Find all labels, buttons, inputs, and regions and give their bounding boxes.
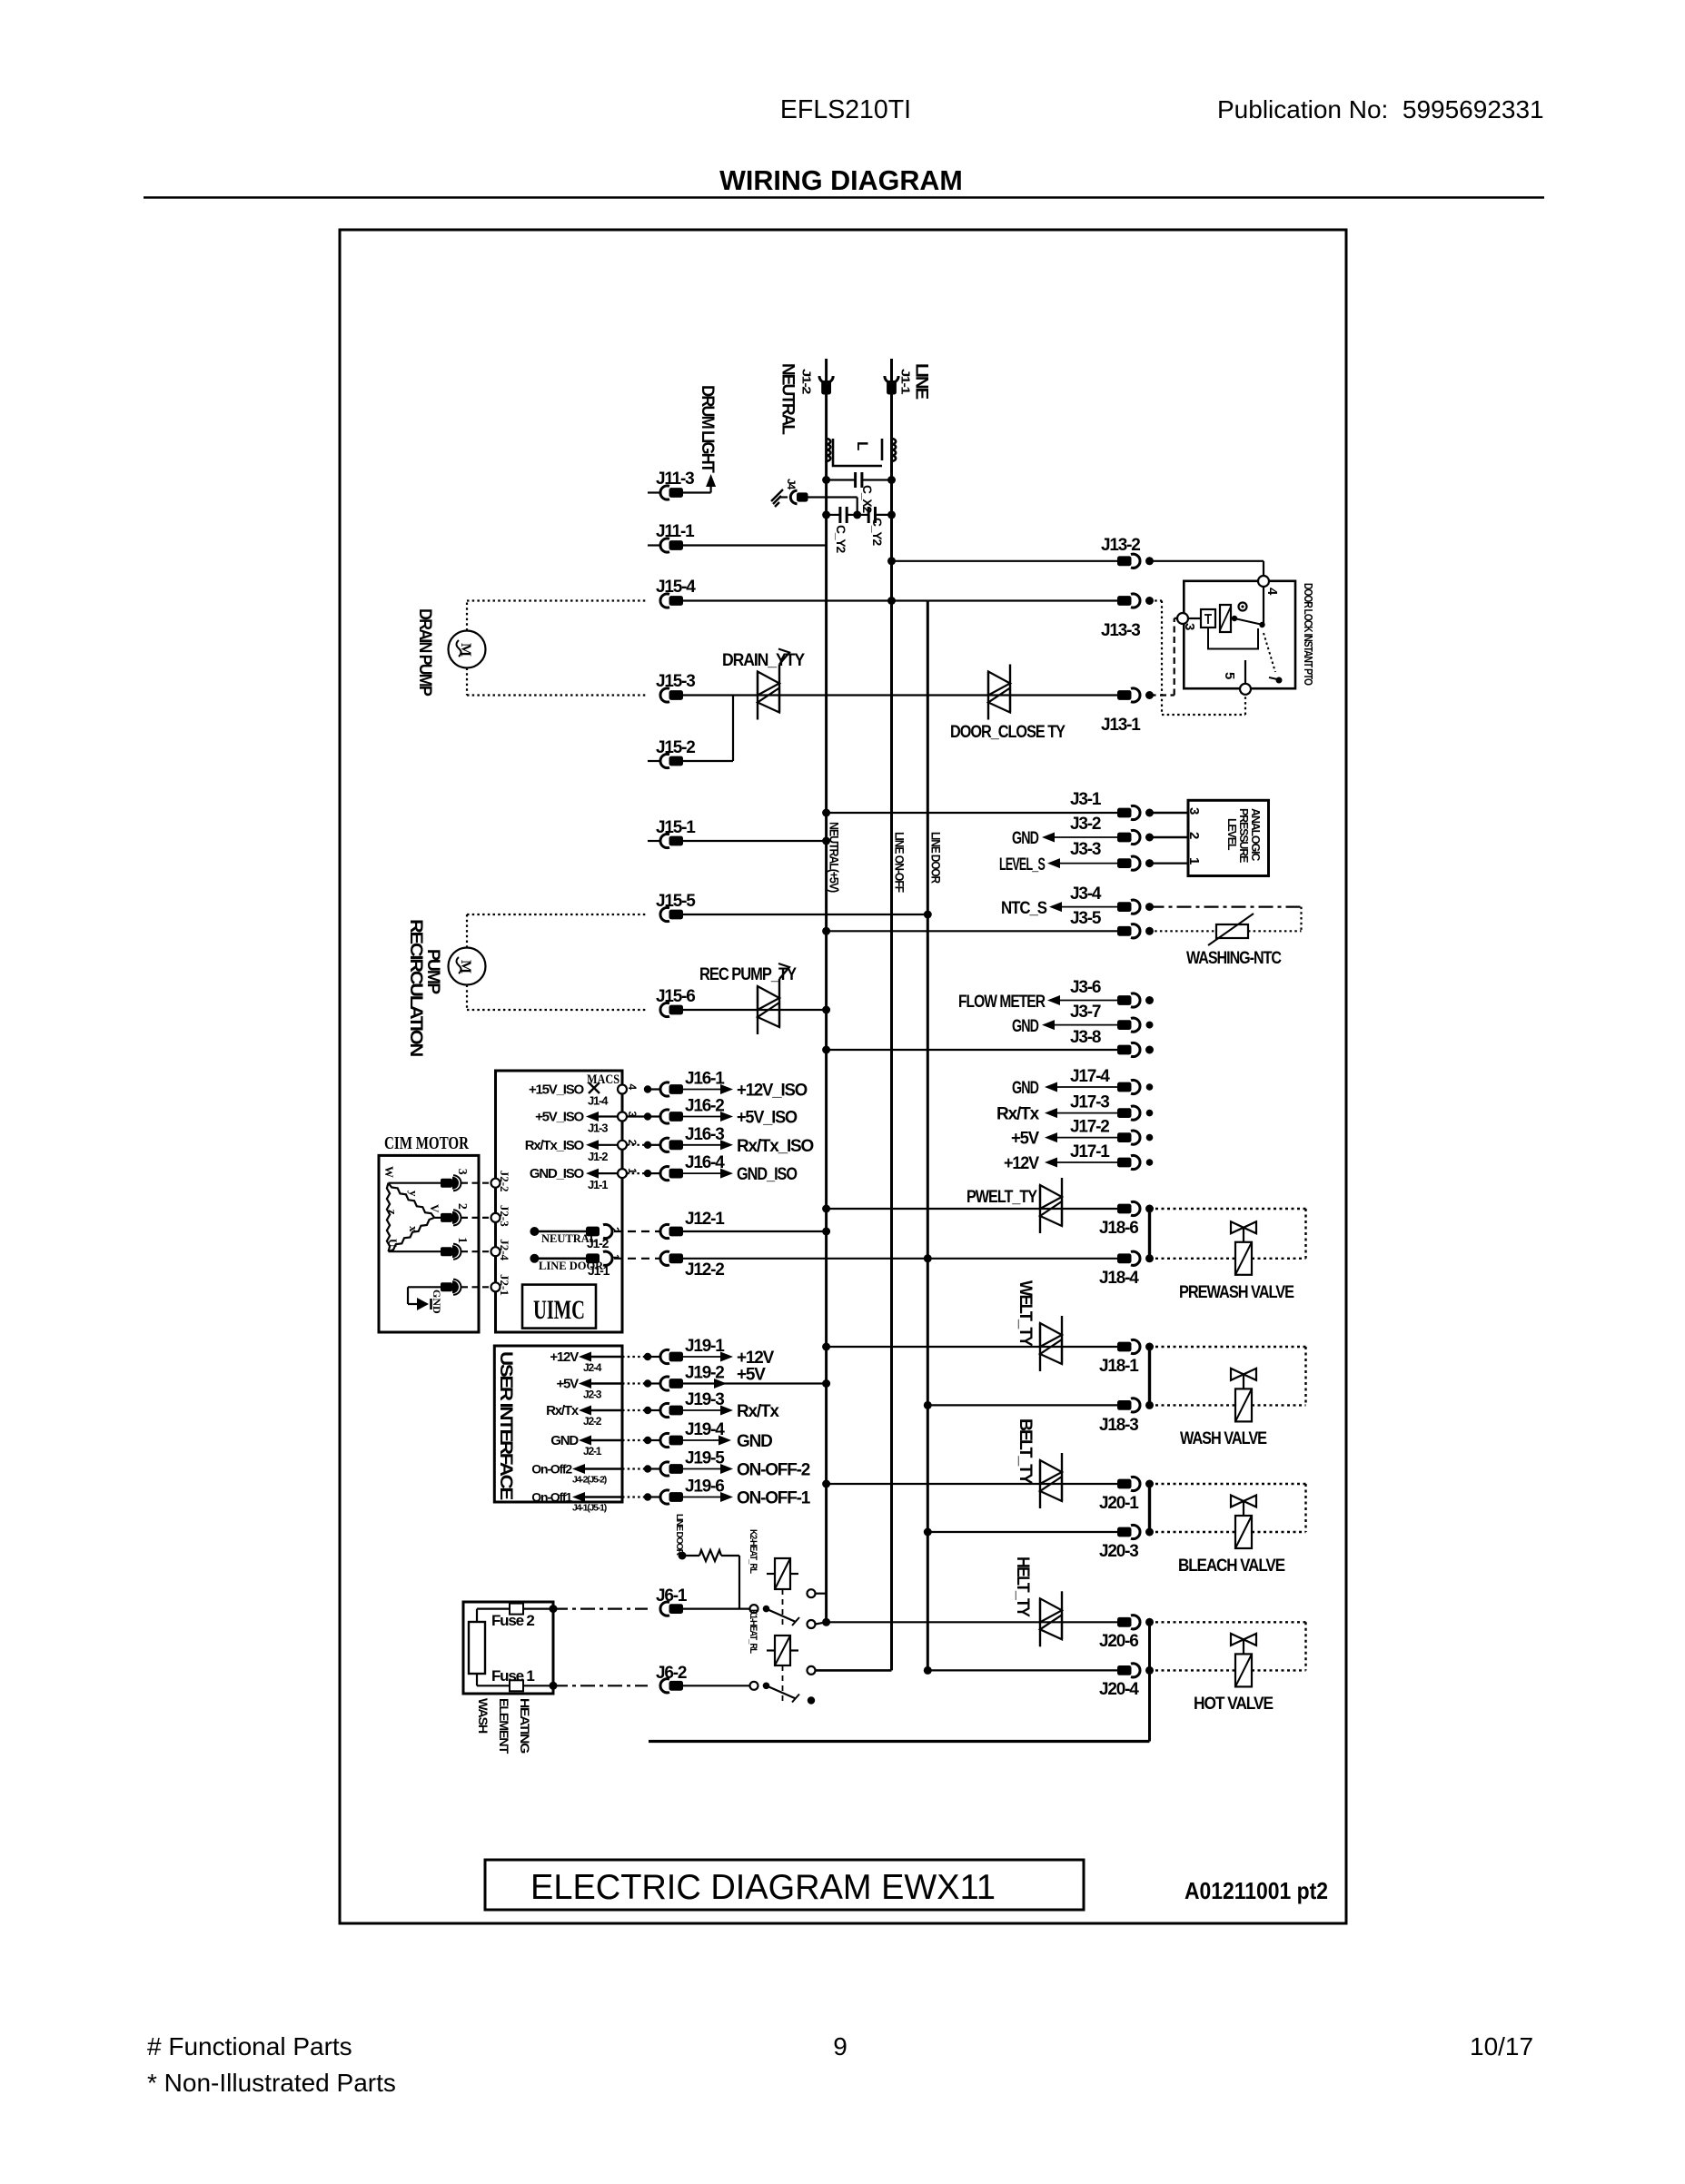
title rule — [144, 196, 1544, 199]
motor RECIRCULATION PUMP — [449, 948, 486, 985]
svg-text:On-Off2: On-Off2 — [531, 1462, 572, 1477]
valve loop HOT (dotted) — [1150, 1621, 1306, 1623]
svg-text:NEUTRAL: NEUTRAL — [778, 363, 798, 435]
svg-text:DOOR LOCK INSTANT PTO: DOOR LOCK INSTANT PTO — [1302, 583, 1314, 686]
svg-text:J1-3: J1-3 — [588, 1122, 608, 1135]
svg-text:HOT VALVE: HOT VALVE — [1194, 1695, 1273, 1714]
svg-text:J6-2: J6-2 — [656, 1664, 687, 1683]
connector J15-6 — [660, 1003, 669, 1016]
svg-text:GND_ISO: GND_ISO — [530, 1166, 585, 1181]
svg-text:REC PUMP_TY: REC PUMP_TY — [699, 965, 797, 984]
svg-text:J20-3: J20-3 — [1099, 1542, 1138, 1561]
svg-text:J3-4: J3-4 — [1070, 884, 1102, 904]
svg-text:A01211001 pt2: A01211001 pt2 — [1184, 1877, 1328, 1904]
svg-text:J4-1(J5-1): J4-1(J5-1) — [572, 1503, 607, 1514]
svg-text:2: 2 — [455, 1203, 469, 1210]
connector J19-1 — [622, 1356, 644, 1358]
svg-text:GND: GND — [1012, 829, 1038, 848]
svg-text:# Functional Parts: # Functional Parts — [147, 2032, 352, 2060]
connector J19-5 — [622, 1468, 644, 1469]
svg-text:ELEMENT: ELEMENT — [497, 1698, 511, 1754]
triac HELT_TY — [1039, 1598, 1041, 1646]
svg-text:WASH: WASH — [476, 1698, 491, 1734]
wire J16-2 arrow +5V_ISO — [680, 1116, 720, 1118]
svg-text:K2-HEAT_RL: K2-HEAT_RL — [748, 1529, 758, 1574]
svg-text:J1-1: J1-1 — [588, 1263, 610, 1278]
svg-text:Rx/Tx: Rx/Tx — [546, 1403, 580, 1418]
triac REC PUMP_TY — [757, 986, 758, 1034]
connector J1-1 — [885, 376, 898, 383]
ground symbol and connector J4 — [780, 496, 788, 498]
svg-text:W: W — [382, 1166, 396, 1178]
wire J11-3 arrow to drum light — [680, 491, 711, 493]
svg-text:J17-1: J17-1 — [1070, 1142, 1110, 1161]
connector J11-1 — [648, 544, 659, 546]
svg-text:J11-3: J11-3 — [656, 469, 694, 489]
door lock switch — [1232, 616, 1237, 621]
CIM motor pin 2 to J2-3 — [434, 1217, 441, 1219]
svg-text:GND: GND — [1012, 1017, 1038, 1036]
triac WELT_TY — [1039, 1323, 1041, 1371]
USER INTERFACE box — [494, 1346, 622, 1502]
svg-text:NTC_S: NTC_S — [1001, 899, 1046, 918]
wire J18-3 row from LINE DOOR — [927, 1404, 1117, 1406]
wire J20-3 row from LINE DOOR — [927, 1531, 1117, 1533]
door lock box — [1184, 581, 1295, 688]
svg-text:9: 9 — [833, 2032, 847, 2060]
svg-text:HELT_TY: HELT_TY — [1013, 1556, 1032, 1617]
wire J19-6 arrow ON-OFF-1 — [680, 1497, 720, 1498]
svg-text:Fuse 2: Fuse 2 — [491, 1612, 534, 1629]
CIM MOTOR box — [379, 1155, 479, 1332]
valve loop BLEACH (dotted) — [1150, 1483, 1306, 1485]
connector J15-4 — [660, 594, 669, 608]
svg-text:J15-6: J15-6 — [656, 987, 695, 1006]
wire J11-1 to NEUTRAL — [680, 544, 827, 546]
svg-text:J2-1: J2-1 — [583, 1445, 602, 1458]
wire J20-4 row from LINE DOOR end — [927, 1669, 1117, 1671]
svg-text:J1-2: J1-2 — [588, 1150, 608, 1163]
svg-text:y: y — [407, 1191, 421, 1197]
svg-text:ANALOGIC: ANALOGIC — [1249, 808, 1262, 861]
svg-text:PREWASH VALVE: PREWASH VALVE — [1179, 1283, 1293, 1302]
wire J20-1 row from NEUTRAL — [827, 1483, 1117, 1485]
wire drain pump loop (dotted) — [466, 601, 468, 631]
svg-text:U: U — [386, 1239, 400, 1248]
svg-text:J2-4: J2-4 — [583, 1361, 602, 1374]
svg-text:J16-4: J16-4 — [685, 1153, 725, 1172]
svg-text:J16-2: J16-2 — [685, 1097, 724, 1116]
svg-text:LINE DOOR: LINE DOOR — [928, 832, 942, 884]
dashed wire J13-3 to J13-1 row — [1150, 599, 1163, 601]
svg-text:Rx/Tx_ISO: Rx/Tx_ISO — [737, 1137, 813, 1156]
svg-text:J17-3: J17-3 — [1070, 1093, 1109, 1112]
svg-text:GND: GND — [1012, 1079, 1038, 1098]
svg-text:J19-3: J19-3 — [685, 1390, 724, 1409]
svg-text:PRESSURE: PRESSURE — [1237, 808, 1250, 863]
connector J16-3 — [627, 1144, 644, 1146]
wire J19-3 arrow Rx/Tx — [680, 1409, 720, 1411]
dashed wire J13-1 to pin 3 — [1150, 694, 1175, 696]
pin 5 — [1240, 684, 1251, 695]
CIM motor pin 3 to J2-2 — [389, 1182, 442, 1184]
connector J3-5 — [1117, 926, 1132, 936]
svg-text:K1-HEAT_RL: K1-HEAT_RL — [748, 1609, 758, 1654]
connector J19-3 — [622, 1409, 644, 1411]
svg-text:J12-1: J12-1 — [685, 1210, 725, 1229]
svg-text:BLEACH VALVE: BLEACH VALVE — [1178, 1556, 1284, 1576]
svg-text:J3-1: J3-1 — [1070, 790, 1102, 809]
connector J16-4 — [627, 1172, 644, 1174]
wire J16-1 arrow +12V_ISO — [680, 1089, 720, 1091]
connector J15-2 — [648, 760, 659, 762]
svg-text:+5V_ISO: +5V_ISO — [737, 1109, 797, 1128]
svg-text:Rx/Tx: Rx/Tx — [996, 1105, 1040, 1124]
svg-text:+5V_ISO: +5V_ISO — [535, 1110, 584, 1125]
connector J16-1 — [644, 1085, 651, 1092]
svg-text:3: 3 — [455, 1169, 469, 1175]
svg-text:BELT_TY: BELT_TY — [1016, 1418, 1035, 1485]
connector J15-3 — [660, 688, 669, 702]
svg-text:+5V: +5V — [1011, 1130, 1039, 1149]
svg-text:J4-2(J5-2): J4-2(J5-2) — [572, 1475, 607, 1486]
heating element fuse box — [463, 1602, 553, 1694]
valve WASH VALVE — [1231, 1369, 1244, 1380]
svg-text:J1-4: J1-4 — [588, 1094, 609, 1108]
svg-text:J19-6: J19-6 — [685, 1477, 724, 1497]
svg-text:J18-6: J18-6 — [1099, 1219, 1138, 1238]
wire LINE DOOR vertical bus — [927, 601, 929, 1671]
door lock relay coil — [1201, 609, 1215, 628]
svg-text:J2-2: J2-2 — [583, 1415, 602, 1428]
wire J15-4 row to LINE and LINE DOOR branch — [680, 599, 927, 601]
connector J19-2 — [622, 1382, 644, 1384]
connector J20-1 — [1117, 1479, 1132, 1489]
svg-text:J6-1: J6-1 — [656, 1586, 688, 1606]
dashed wire to J12-1 — [614, 1230, 659, 1232]
svg-text:DRAIN_YTY: DRAIN_YTY — [722, 651, 805, 670]
wire J15-3 row through triacs to J13-1 — [680, 694, 1117, 696]
svg-text:Fuse 1: Fuse 1 — [491, 1667, 534, 1685]
svg-text:NEUTRAL(+5V): NEUTRAL(+5V) — [828, 822, 841, 893]
svg-text:+15V_ISO: +15V_ISO — [529, 1082, 585, 1098]
svg-text:J3-3: J3-3 — [1070, 840, 1101, 859]
capacitor C_Y2 (left) — [827, 514, 840, 516]
valve PREWASH VALVE — [1231, 1221, 1244, 1233]
UIMC connector J1-1 LINE DOOR — [530, 1254, 539, 1263]
svg-text:J2-1: J2-1 — [498, 1274, 511, 1296]
UIMC label box — [522, 1285, 596, 1329]
capacitor C_Y2 (right) — [857, 514, 869, 516]
svg-text:PWELT_TY: PWELT_TY — [966, 1188, 1037, 1207]
svg-text:J18-1: J18-1 — [1099, 1357, 1139, 1376]
svg-text:DOOR_CLOSE TY: DOOR_CLOSE TY — [950, 723, 1066, 742]
CIM motor winding triangle — [387, 1183, 390, 1252]
connector J6-2 — [553, 1685, 648, 1686]
svg-text:J12-2: J12-2 — [685, 1260, 724, 1280]
main schematic frame — [340, 230, 1346, 1923]
wire J19-2 arrow +5V — [680, 1382, 827, 1384]
wire J12-1 to NEUTRAL — [680, 1230, 827, 1232]
wire LINE / LINE ON-OFF vertical bus — [890, 359, 893, 1670]
svg-text:z: z — [386, 1210, 400, 1215]
svg-text:LINE ON-OFF: LINE ON-OFF — [893, 832, 907, 893]
svg-text:2: 2 — [1186, 832, 1202, 839]
wire J19-1 arrow +12V — [680, 1356, 720, 1358]
connector J6-1 — [553, 1607, 648, 1609]
door lock inner wire — [1208, 628, 1258, 649]
svg-text:J18-4: J18-4 — [1099, 1269, 1139, 1288]
svg-text:J4: J4 — [785, 479, 798, 489]
wire J15-5 to LINE DOOR — [680, 914, 927, 915]
svg-text:GND: GND — [737, 1432, 772, 1451]
connector J15-5 — [660, 907, 669, 921]
svg-text:HEATING: HEATING — [518, 1698, 532, 1754]
svg-text:J20-6: J20-6 — [1099, 1632, 1138, 1651]
wire valve link J20-1/J20-3 — [1148, 1484, 1151, 1532]
svg-text:J13-3: J13-3 — [1101, 621, 1140, 640]
svg-text:WASHING-NTC: WASHING-NTC — [1186, 949, 1282, 968]
valve loop PREWASH (dotted) — [1150, 1208, 1306, 1210]
svg-text:J1-1: J1-1 — [899, 369, 913, 394]
wire J4 to C_Y2 mid node — [808, 496, 857, 498]
connector J16-2 — [627, 1115, 644, 1117]
svg-text:PUMP: PUMP — [423, 949, 443, 994]
svg-text:J2-2: J2-2 — [498, 1171, 511, 1192]
svg-text:J16-3: J16-3 — [685, 1125, 724, 1144]
svg-text:J19-2: J19-2 — [685, 1364, 724, 1383]
svg-text:J13-1: J13-1 — [1101, 716, 1141, 735]
connector J20-6 — [1117, 1617, 1132, 1627]
svg-text:ON-OFF-1: ON-OFF-1 — [737, 1489, 811, 1508]
svg-text:J16-1: J16-1 — [685, 1070, 725, 1089]
svg-text:+12V: +12V — [1004, 1154, 1039, 1173]
valve HOT VALVE — [1231, 1634, 1244, 1645]
wire J15-6 through REC PUMP_TY to NEUTRAL — [680, 1009, 827, 1011]
svg-text:x: x — [407, 1226, 421, 1232]
connector J3-8 — [1117, 1045, 1132, 1055]
wire J15-1 to NEUTRAL — [680, 840, 827, 842]
motor DRAIN PUMP — [449, 631, 486, 668]
connector J3-1 — [1117, 808, 1132, 818]
wire J19-4 arrow GND — [680, 1439, 720, 1441]
svg-text:J15-2: J15-2 — [656, 738, 695, 757]
inductor L (line filter) — [827, 439, 897, 461]
connector J13-2 — [1117, 556, 1132, 566]
svg-text:EFLS210TI: EFLS210TI — [780, 95, 911, 124]
wire J12-2 to J18-4 (line door row) — [680, 1258, 1117, 1260]
svg-text:J15-5: J15-5 — [656, 892, 696, 911]
UIMC module box — [496, 1071, 623, 1332]
wire J20-6 row from NEUTRAL end — [827, 1621, 1117, 1623]
svg-text:USER INTERFACE: USER INTERFACE — [496, 1351, 515, 1500]
svg-text:J2-4: J2-4 — [498, 1239, 511, 1260]
pin 3 — [1177, 613, 1188, 624]
svg-text:J2-3: J2-3 — [498, 1205, 511, 1227]
wire J3-8 row from NEUTRAL — [827, 1049, 1117, 1051]
connector J1-2 — [819, 376, 833, 383]
svg-text:J1-2: J1-2 — [587, 1236, 610, 1250]
triac PWELT_TY — [1039, 1185, 1041, 1233]
wire J15-2 up to J15-3 row — [680, 760, 733, 762]
svg-text:+5V: +5V — [556, 1377, 579, 1392]
connector J18-4 — [1117, 1253, 1132, 1263]
wire J16-3 arrow Rx/Tx_ISO — [680, 1144, 720, 1146]
svg-text:WASH VALVE: WASH VALVE — [1180, 1429, 1266, 1448]
node junction dots C_Y2 row — [822, 510, 830, 519]
svg-text:WELT_TY: WELT_TY — [1016, 1280, 1035, 1347]
heating element — [469, 1622, 485, 1674]
CIM motor pin 1 to J2-4 — [389, 1250, 442, 1252]
svg-text:J1-2: J1-2 — [800, 369, 814, 394]
svg-text:ELECTRIC DIAGRAM EWX11: ELECTRIC DIAGRAM EWX11 — [530, 1868, 996, 1907]
svg-text:WIRING DIAGRAM: WIRING DIAGRAM — [719, 165, 963, 196]
connector J13-3 — [927, 599, 1117, 601]
door lock indicator — [1239, 603, 1247, 611]
svg-text:+5V: +5V — [737, 1366, 766, 1385]
fuse Fuse 2 — [476, 1609, 478, 1622]
wire J3-1 row — [827, 812, 1117, 814]
connector J20-3 — [1117, 1527, 1132, 1537]
svg-text:5: 5 — [1222, 672, 1237, 679]
wire J13-2 to door lock pin 4 — [1150, 560, 1264, 562]
door lock solenoid element — [1220, 605, 1231, 632]
relay K2 contacts — [808, 1589, 816, 1597]
svg-text:J15-3: J15-3 — [656, 672, 695, 691]
triac DRAIN_YTY — [757, 672, 758, 720]
svg-text:1: 1 — [1186, 857, 1202, 865]
svg-text:J19-1: J19-1 — [685, 1337, 725, 1356]
svg-text:ON-OFF-2: ON-OFF-2 — [737, 1461, 810, 1480]
door lock PTC contact — [1264, 633, 1275, 672]
svg-text:J3-5: J3-5 — [1070, 909, 1102, 928]
svg-text:J18-3: J18-3 — [1099, 1416, 1138, 1435]
connector J11-3 — [648, 491, 659, 493]
svg-text:J15-4: J15-4 — [656, 578, 696, 597]
svg-text:J3-2: J3-2 — [1070, 815, 1101, 834]
wire J18-1 row from NEUTRAL — [827, 1346, 1117, 1348]
relay K1 contacts — [808, 1666, 816, 1675]
wire NEUTRAL vertical bus — [825, 359, 828, 1622]
connector J12-2 — [660, 1251, 669, 1265]
triac BELT_TY — [1039, 1460, 1041, 1508]
resistor heater sense — [679, 1552, 687, 1560]
svg-text:C_Y2: C_Y2 — [834, 525, 848, 553]
svg-text:J13-2: J13-2 — [1101, 536, 1140, 555]
analogic pressure level sensor box — [1188, 800, 1269, 875]
wire J16-4 arrow GND_ISO — [680, 1172, 720, 1174]
svg-text:GND: GND — [431, 1290, 443, 1314]
wire valve link J18-6/J18-4 — [1148, 1209, 1151, 1259]
wire bottom return bus — [649, 1740, 1150, 1743]
svg-text:J20-1: J20-1 — [1099, 1494, 1139, 1513]
svg-text:J2-3: J2-3 — [583, 1388, 602, 1401]
connector J18-1 — [1117, 1342, 1132, 1352]
svg-text:LINE: LINE — [912, 363, 931, 399]
pin 4 — [1258, 576, 1269, 587]
svg-text:LEVEL_S: LEVEL_S — [999, 855, 1045, 875]
svg-text:Rx/Tx: Rx/Tx — [737, 1402, 779, 1421]
wire valve link J20-6/J20-4 and return — [1148, 1622, 1151, 1741]
svg-text:J11-1: J11-1 — [656, 522, 695, 541]
svg-text:GND: GND — [550, 1433, 579, 1448]
svg-text:J1-1: J1-1 — [588, 1178, 608, 1191]
svg-text:GND_ISO: GND_ISO — [737, 1165, 797, 1184]
svg-text:+12V: +12V — [550, 1349, 579, 1365]
connector J13-1 — [1117, 690, 1132, 700]
svg-text:UIMC: UIMC — [533, 1295, 585, 1325]
electric diagram title box — [485, 1860, 1084, 1910]
fuse Fuse 1 — [476, 1674, 478, 1685]
svg-text:FLOW METER: FLOW METER — [958, 993, 1046, 1012]
wire J18-6 row from NEUTRAL — [827, 1208, 1117, 1210]
valve loop WASH (dotted) — [1150, 1346, 1306, 1348]
svg-text:CIM MOTOR: CIM MOTOR — [384, 1133, 469, 1153]
connector J18-3 — [1117, 1400, 1132, 1410]
wire NTC loop top — [1150, 905, 1302, 907]
connector J20-4 — [1117, 1665, 1132, 1675]
svg-text:On-Off1: On-Off1 — [531, 1490, 572, 1505]
svg-text:DRAIN PUMP: DRAIN PUMP — [415, 608, 434, 697]
connector J12-1 — [660, 1224, 669, 1238]
svg-text:3: 3 — [1182, 623, 1197, 630]
svg-text:LINE DOOR: LINE DOOR — [674, 1514, 684, 1556]
svg-text:DRUM LIGHT: DRUM LIGHT — [698, 385, 717, 473]
triac DOOR_CLOSE TY — [987, 672, 989, 720]
svg-text:C_Y2: C_Y2 — [870, 518, 885, 546]
dashed wire to pin 5 — [1162, 714, 1245, 716]
svg-text:Publication No: 5995692331: Publication No: 5995692331 — [1217, 95, 1544, 124]
connector J19-4 — [622, 1439, 644, 1441]
valve BLEACH VALVE — [1231, 1496, 1244, 1507]
wire pump to J15-6 (dotted) — [466, 985, 468, 1011]
thermistor WASHING-NTC — [1150, 930, 1217, 932]
svg-text:J3-7: J3-7 — [1070, 1003, 1101, 1022]
wire valve link J18-1/J18-3 — [1148, 1347, 1151, 1405]
capacitor C_X2 — [827, 479, 856, 480]
recirculation pump dotted stub — [467, 914, 648, 915]
connector J15-1 — [648, 840, 659, 842]
svg-text:J19-5: J19-5 — [685, 1449, 725, 1468]
svg-text:1: 1 — [455, 1237, 469, 1243]
svg-text:V: V — [428, 1204, 441, 1213]
wire J19-5 arrow ON-OFF-2 — [680, 1468, 720, 1470]
svg-text:LEVEL: LEVEL — [1225, 818, 1238, 851]
wire J13-2 row from LINE — [892, 560, 1118, 562]
svg-text:+12V_ISO: +12V_ISO — [737, 1082, 807, 1101]
svg-text:RECIRCULATION: RECIRCULATION — [406, 919, 426, 1056]
connector J19-6 — [622, 1496, 644, 1497]
CIM motor ground pin J2-1 — [441, 1282, 452, 1291]
wire J3-5 row from NEUTRAL — [827, 930, 1117, 932]
UIMC connector J1-2 NEUTRAL — [530, 1227, 539, 1236]
svg-text:J3-8: J3-8 — [1070, 1028, 1101, 1047]
svg-text:J20-4: J20-4 — [1099, 1680, 1139, 1699]
svg-text:J17-4: J17-4 — [1070, 1067, 1110, 1086]
svg-text:J15-1: J15-1 — [656, 818, 696, 837]
svg-text:L: L — [854, 441, 871, 450]
dashed wire to J12-2 — [614, 1258, 659, 1260]
svg-text:10/17: 10/17 — [1470, 2032, 1533, 2060]
svg-text:3: 3 — [1186, 807, 1202, 815]
svg-text:J17-2: J17-2 — [1070, 1118, 1109, 1137]
svg-text:* Non-Illustrated Parts: * Non-Illustrated Parts — [147, 2069, 396, 2097]
svg-text:J3-6: J3-6 — [1070, 978, 1101, 997]
svg-text:Rx/Tx_ISO: Rx/Tx_ISO — [525, 1138, 585, 1153]
connector J18-6 — [1117, 1204, 1132, 1214]
